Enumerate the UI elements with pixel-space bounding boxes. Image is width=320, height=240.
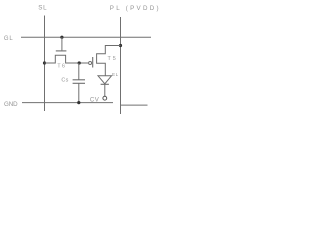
svg-text:GL: GL (4, 36, 14, 42)
wire GND horizontal line (22, 102, 113, 104)
svg-text:Cs: Cs (61, 78, 68, 84)
node junction T6 gate on GL (60, 36, 63, 39)
svg-text:EL: EL (112, 72, 119, 77)
transistor T6 channel (45, 55, 89, 63)
capacitor Cs bottom plate (73, 82, 85, 84)
diode EL anode triangle (98, 76, 112, 84)
svg-text:T6: T6 (57, 64, 66, 70)
wire PL vertical power line (120, 17, 122, 114)
svg-text:SL: SL (38, 5, 47, 12)
svg-text:GND: GND (4, 101, 18, 108)
wire EL cathode lead (104, 84, 106, 96)
transistor T5 gate bar (92, 57, 94, 68)
node junction Cs to GND (77, 101, 80, 104)
node junction storage node A (78, 61, 81, 64)
node junction T6 source on SL (43, 61, 46, 64)
wire T6 gate lead (61, 37, 63, 50)
wire SL vertical source line (44, 16, 46, 112)
wire Cs top lead (78, 63, 80, 80)
svg-text:CV: CV (90, 97, 100, 104)
svg-text:PL (PVDD): PL (PVDD) (110, 5, 161, 12)
transistor T6 gate bar (56, 50, 67, 52)
wire GL horizontal gate line (21, 36, 151, 38)
capacitor Cs top plate (73, 79, 85, 81)
svg-text:T5: T5 (108, 56, 118, 62)
transistor T5 gate bubble (89, 62, 92, 65)
terminal CV circle (103, 96, 107, 100)
wire Cs bottom lead (78, 83, 80, 102)
transistor T5 channel (97, 46, 121, 76)
node junction T5 source on PL (119, 44, 122, 47)
diode EL cathode bar (101, 83, 109, 85)
wire PL bottom right stub (121, 104, 148, 106)
